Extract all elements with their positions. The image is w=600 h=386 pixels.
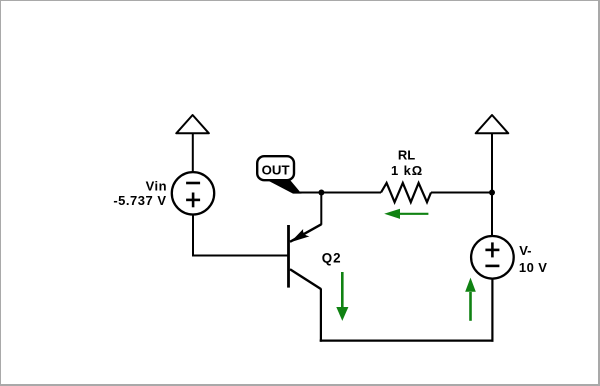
node junction at OUT (318, 190, 324, 196)
power flag (right net) (476, 115, 509, 133)
wire: bottom rail (320, 340, 494, 342)
svg-text:Vin: Vin (146, 179, 168, 194)
current arrow at Q2 collector (pointing down) (336, 272, 348, 321)
svg-text:RL: RL (398, 148, 415, 163)
svg-text:Q2: Q2 (322, 251, 342, 266)
current arrow through RL (pointing left) (384, 209, 428, 219)
wire: right flag down through node to V- top (491, 133, 493, 236)
voltage source V- (471, 236, 514, 279)
resistor RL (381, 183, 431, 202)
svg-text:-5.737 V: -5.737 V (113, 193, 166, 208)
net label OUT (box) (257, 156, 294, 180)
transistor Q2 (289, 224, 322, 289)
node junction right (489, 190, 495, 196)
current arrow into V- (pointing up) (465, 278, 476, 321)
net label OUT (tail) (265, 179, 302, 194)
svg-text:V-: V- (519, 243, 531, 258)
wire: Vin bottom to Q2 base (193, 215, 288, 256)
power flag (left net) (176, 115, 209, 133)
svg-text:10 V: 10 V (519, 260, 548, 275)
wire: V- bottom to bottom rail (491, 279, 493, 342)
svg-text:OUT: OUT (262, 163, 290, 178)
wire: resistor to right node (431, 192, 492, 194)
voltage source Vin (172, 172, 214, 214)
wire: OUT node horizontal to resistor (300, 192, 381, 194)
wire: Q2 emitter up to OUT node (320, 193, 322, 225)
svg-text:1 kΩ: 1 kΩ (391, 163, 423, 178)
wire: Q2 collector down to bottom rail (320, 289, 322, 342)
wire: left flag to Vin top (192, 133, 194, 172)
